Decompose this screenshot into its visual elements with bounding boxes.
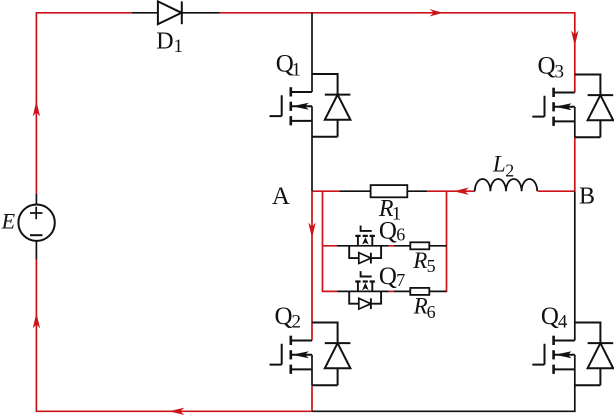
svg-text:A: A (272, 183, 290, 210)
svg-text:2: 2 (505, 160, 514, 180)
svg-text:R: R (413, 294, 428, 319)
svg-text:7: 7 (396, 270, 405, 290)
svg-text:D: D (156, 28, 173, 54)
svg-text:2: 2 (292, 312, 302, 333)
svg-text:Q: Q (379, 263, 397, 290)
svg-text:5: 5 (427, 256, 436, 276)
svg-text:Q: Q (541, 303, 559, 330)
svg-text:6: 6 (396, 224, 405, 244)
svg-text:6: 6 (427, 302, 436, 322)
svg-text:B: B (579, 184, 595, 210)
svg-text:Q: Q (275, 303, 293, 330)
svg-text:E: E (1, 208, 16, 233)
svg-text:1: 1 (174, 36, 184, 57)
svg-text:3: 3 (555, 61, 565, 82)
svg-text:R: R (412, 248, 427, 273)
svg-text:Q: Q (538, 53, 556, 80)
svg-text:4: 4 (558, 312, 568, 333)
svg-text:L: L (492, 152, 506, 177)
svg-text:R: R (378, 196, 394, 222)
svg-text:1: 1 (292, 59, 302, 80)
